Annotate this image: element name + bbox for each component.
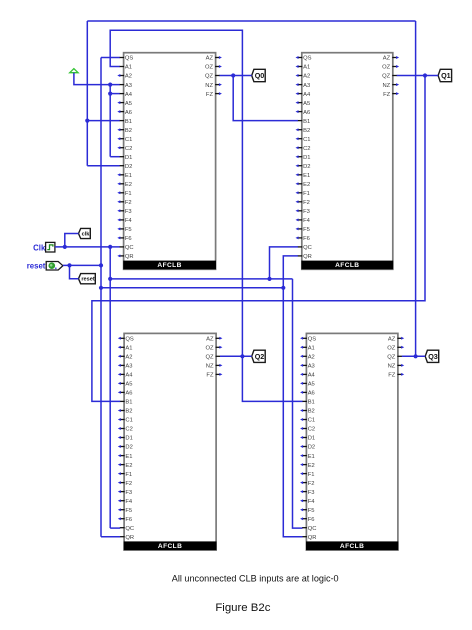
svg-text:AFCLB: AFCLB: [157, 262, 181, 269]
svg-text:F2: F2: [308, 481, 315, 487]
junction Q3 at U1.B1: [85, 119, 89, 123]
wire TERM: U1.D1 entry: [110, 156, 120, 158]
svg-text:A2: A2: [125, 355, 132, 361]
svg-text:OZ: OZ: [205, 65, 214, 71]
svg-text:QC: QC: [303, 245, 312, 251]
wire Q3: left drop to U1.B1/D2: [86, 21, 88, 166]
svg-text:QR: QR: [125, 535, 134, 541]
svg-text:F5: F5: [303, 227, 310, 233]
svg-text:D1: D1: [303, 155, 310, 161]
svg-text:Q2: Q2: [255, 352, 265, 361]
svg-text:A5: A5: [125, 382, 132, 388]
svg-text:Q3: Q3: [428, 352, 438, 361]
svg-text:B1: B1: [303, 119, 310, 125]
U3 pin stubs: [120, 338, 221, 536]
svg-text:QC: QC: [125, 526, 134, 532]
wire CLK: riser to U2.QC: [270, 247, 298, 279]
svg-text:A4: A4: [308, 373, 316, 379]
clock source V1: [46, 242, 55, 252]
svg-text:C2: C2: [308, 427, 315, 433]
svg-text:C2: C2: [303, 146, 310, 152]
junction RESET at source column: [99, 263, 103, 267]
U4 unconnected pin ticks: [300, 337, 404, 520]
svg-text:C1: C1: [308, 418, 315, 424]
svg-text:All unconnected CLB inputs are: All unconnected CLB inputs are at logic-…: [172, 574, 339, 584]
svg-text:A6: A6: [303, 110, 310, 116]
svg-text:clk: clk: [82, 232, 91, 238]
flag clk: [79, 228, 91, 238]
wire TERM: arrow to U1.A3: [74, 73, 120, 85]
svg-text:A6: A6: [125, 110, 132, 116]
CLB U2 (top-right AFCLB): [301, 53, 393, 270]
junction Q3 at flag tap: [414, 354, 418, 358]
svg-text:AFCLB: AFCLB: [158, 543, 182, 550]
svg-text:E2: E2: [125, 463, 132, 469]
wire Q3: U1.B1 entry: [87, 120, 119, 122]
wire Q3: U4.QZ to flag: [402, 355, 425, 357]
junction TERM at A4: [108, 92, 112, 96]
svg-text:D1: D1: [125, 436, 132, 442]
U3 unconnected pin ticks: [118, 337, 223, 520]
U1 unconnected pin ticks: [117, 56, 222, 257]
svg-text:QS: QS: [125, 337, 134, 343]
junction Q1 at drop: [423, 73, 427, 77]
svg-text:C2: C2: [125, 146, 132, 152]
svg-text:reset: reset: [27, 262, 46, 271]
wire RESET: tap to reset flag: [70, 265, 79, 278]
svg-text:F3: F3: [125, 209, 132, 215]
wire TERM: vertical to D1: [109, 85, 111, 157]
svg-text:A1: A1: [125, 346, 132, 352]
svg-text:QZ: QZ: [387, 355, 396, 361]
svg-text:D2: D2: [125, 445, 132, 451]
svg-text:A4: A4: [125, 92, 133, 98]
svg-text:A3: A3: [125, 364, 132, 370]
svg-text:F1: F1: [303, 191, 310, 197]
svg-text:QR: QR: [125, 254, 134, 260]
svg-text:F4: F4: [308, 499, 316, 505]
svg-text:QS: QS: [308, 337, 317, 343]
svg-text:FZ: FZ: [383, 92, 391, 98]
flag Q2: [252, 350, 266, 362]
svg-text:AZ: AZ: [206, 56, 214, 62]
svg-text:NZ: NZ: [205, 83, 213, 89]
svg-text:F3: F3: [303, 209, 310, 215]
svg-text:QS: QS: [125, 56, 134, 62]
U4 pin stubs: [302, 338, 402, 536]
U2 unconnected pin ticks: [296, 56, 400, 239]
svg-text:F5: F5: [125, 508, 132, 514]
CLB U1 (top-left AFCLB): [123, 53, 216, 270]
wire CLK: drop to U4.QC: [293, 279, 303, 528]
svg-text:F4: F4: [125, 218, 133, 224]
svg-text:F3: F3: [125, 490, 132, 496]
svg-text:C1: C1: [125, 418, 132, 424]
svg-text:Clk: Clk: [33, 243, 46, 252]
svg-text:F1: F1: [308, 472, 315, 478]
svg-text:QZ: QZ: [205, 74, 214, 80]
svg-text:A2: A2: [303, 74, 310, 80]
svg-text:QS: QS: [303, 56, 312, 62]
svg-text:QZ: QZ: [205, 355, 214, 361]
svg-text:QC: QC: [125, 245, 134, 251]
wire RESET: vertical x=101 (U1.QS to U3.QR): [100, 58, 102, 537]
svg-text:A2: A2: [308, 355, 315, 361]
svg-text:B1: B1: [125, 119, 132, 125]
svg-text:F6: F6: [125, 517, 132, 523]
U1 pin labels: [125, 56, 214, 260]
junction Q0 at drop: [231, 73, 235, 77]
svg-text:Figure B2c: Figure B2c: [215, 602, 270, 614]
svg-text:B2: B2: [303, 128, 310, 134]
svg-text:QZ: QZ: [382, 74, 391, 80]
svg-text:A6: A6: [125, 391, 132, 397]
svg-text:E1: E1: [308, 454, 315, 460]
wire Q1: route to U3.B1: [92, 76, 425, 402]
wire CLK: distribution row (y=279): [110, 278, 292, 280]
svg-text:E1: E1: [125, 454, 132, 460]
wire RESET: riser to U2.QR: [283, 256, 298, 288]
wire RESET: drop to U4.QR: [283, 288, 302, 537]
svg-text:C1: C1: [303, 137, 310, 143]
svg-text:FZ: FZ: [206, 92, 214, 98]
svg-text:A1: A1: [308, 346, 315, 352]
svg-text:A4: A4: [303, 92, 311, 98]
svg-text:AZ: AZ: [388, 337, 396, 343]
svg-text:A1: A1: [303, 65, 310, 71]
svg-text:F2: F2: [125, 481, 132, 487]
svg-text:C2: C2: [125, 427, 132, 433]
svg-text:Q1: Q1: [441, 71, 451, 80]
input terminal (logic-high arrow): [70, 69, 78, 73]
svg-text:NZ: NZ: [382, 83, 390, 89]
wire Q2: to U4.B1: [242, 356, 302, 401]
wire Q3: top row (y=21): [87, 20, 415, 22]
svg-text:D2: D2: [125, 164, 132, 170]
wire RESET: U3.QR entry: [101, 536, 120, 538]
wire CLK: tap to clk flag: [65, 234, 79, 247]
svg-text:E2: E2: [303, 182, 310, 188]
wire TERM: U1.A4 entry: [110, 93, 120, 95]
svg-text:A5: A5: [308, 382, 315, 388]
svg-text:A1: A1: [125, 65, 132, 71]
flag Q0: [252, 69, 266, 81]
svg-text:B1: B1: [125, 400, 132, 406]
svg-text:D1: D1: [308, 436, 315, 442]
svg-text:B2: B2: [125, 409, 132, 415]
svg-text:E2: E2: [125, 182, 132, 188]
U1 pin stubs: [119, 58, 220, 256]
svg-text:B1: B1: [308, 400, 315, 406]
svg-text:E1: E1: [303, 173, 310, 179]
svg-text:A5: A5: [303, 101, 310, 107]
svg-text:A3: A3: [125, 83, 132, 89]
junction CLK at U1.QC column: [108, 245, 112, 249]
svg-text:A5: A5: [125, 101, 132, 107]
wire RESET: distribution row (y=288): [101, 287, 283, 289]
wire CLK: U3.QC entry: [110, 527, 120, 529]
svg-text:F1: F1: [125, 191, 132, 197]
wire Q2: feedback to U1.A1: [110, 30, 242, 356]
junction RESET at U2/U4 column: [281, 286, 285, 290]
svg-text:AZ: AZ: [383, 56, 391, 62]
wire Q0: drop to U2.B1: [233, 76, 298, 121]
svg-text:FZ: FZ: [206, 373, 214, 379]
flag reset: [79, 274, 96, 284]
svg-text:F2: F2: [125, 200, 132, 206]
U3 pin labels: [125, 337, 214, 541]
svg-text:QR: QR: [303, 254, 312, 260]
svg-text:F6: F6: [125, 236, 132, 242]
svg-text:OZ: OZ: [205, 346, 214, 352]
svg-text:reset: reset: [81, 277, 95, 283]
svg-text:F2: F2: [303, 200, 310, 206]
svg-text:NZ: NZ: [206, 364, 214, 370]
junction CLK at distribution row: [108, 277, 112, 281]
junction Q2 at column: [240, 354, 244, 358]
junction CLK at clk-flag tap: [63, 245, 67, 249]
svg-text:F3: F3: [308, 490, 315, 496]
svg-text:AZ: AZ: [206, 337, 214, 343]
svg-text:AFCLB: AFCLB: [335, 262, 359, 269]
wire Q0: U1.QZ to flag: [220, 75, 252, 77]
junction CLK at U2 riser: [267, 277, 271, 281]
svg-text:AFCLB: AFCLB: [340, 543, 364, 550]
flag Q1: [438, 69, 452, 81]
svg-text:F6: F6: [308, 517, 315, 523]
svg-text:F5: F5: [125, 227, 132, 233]
flag Q3: [425, 350, 439, 362]
junction RESET at distribution row: [99, 286, 103, 290]
U2 pin labels: [303, 56, 391, 260]
svg-text:B2: B2: [308, 409, 315, 415]
CLB U4 (bottom-right AFCLB): [306, 333, 398, 550]
svg-text:A6: A6: [308, 391, 315, 397]
wire CLK: source to U1.QC: [55, 246, 120, 248]
svg-text:OZ: OZ: [387, 346, 396, 352]
svg-text:NZ: NZ: [388, 364, 396, 370]
svg-text:FZ: FZ: [388, 373, 396, 379]
svg-text:OZ: OZ: [382, 65, 391, 71]
svg-text:D2: D2: [303, 164, 310, 170]
wire CLK: main vertical down (x=110): [109, 247, 111, 528]
svg-text:F5: F5: [308, 508, 315, 514]
svg-text:QR: QR: [308, 535, 317, 541]
wire Q3: feedback riser (x=415.6): [415, 21, 417, 356]
wire RESET: U1.QS entry: [101, 57, 120, 59]
U2 pin stubs: [297, 58, 397, 256]
svg-text:B2: B2: [125, 128, 132, 134]
wire Q3: U1.D2 entry: [87, 165, 119, 167]
svg-text:D2: D2: [308, 445, 315, 451]
svg-text:F6: F6: [303, 236, 310, 242]
junction TERM at A3: [108, 83, 112, 87]
U4 pin labels: [308, 337, 396, 541]
svg-text:F1: F1: [125, 472, 132, 478]
svg-text:E2: E2: [308, 463, 315, 469]
svg-text:E1: E1: [125, 173, 132, 179]
svg-text:Q0: Q0: [255, 71, 265, 80]
svg-text:QC: QC: [308, 526, 317, 532]
CLB U3 (bottom-left AFCLB): [124, 333, 217, 550]
svg-text:F4: F4: [303, 218, 311, 224]
svg-text:A2: A2: [125, 74, 132, 80]
reset source V2: [46, 262, 63, 271]
svg-text:A3: A3: [308, 364, 315, 370]
svg-text:F4: F4: [125, 499, 133, 505]
wire Q2: U3.QZ to flag: [220, 355, 252, 357]
svg-text:A4: A4: [125, 373, 133, 379]
junction RESET at flag tap: [67, 263, 71, 267]
svg-text:C1: C1: [125, 137, 132, 143]
svg-text:A3: A3: [303, 83, 310, 89]
wire Q1: U2.QZ to flag: [397, 75, 438, 77]
wire RESET: source to vertical: [63, 264, 101, 266]
svg-text:D1: D1: [125, 155, 132, 161]
